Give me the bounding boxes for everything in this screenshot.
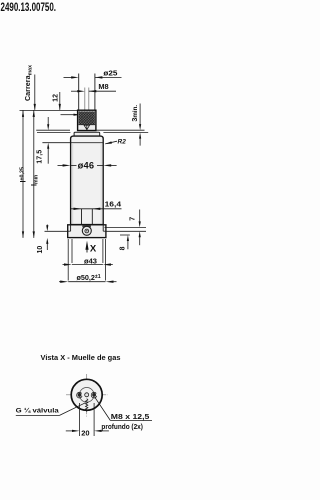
svg-text:X: X bbox=[90, 243, 97, 254]
dimension o25 bbox=[64, 68, 122, 78]
dimension 12 bbox=[53, 92, 61, 110]
label G 1/4 valvula bbox=[16, 403, 86, 416]
wire: stud extension line right bbox=[94, 74, 96, 111]
wire: extension line boss bottom to right bbox=[96, 129, 145, 131]
dimension l +-0,25 bbox=[19, 110, 28, 237]
centerline main view bbox=[86, 135, 88, 233]
piston rod boss (knurled, o25) bbox=[78, 110, 96, 130]
valve spring symbol bbox=[86, 399, 88, 412]
dimension Carrera max bbox=[23, 65, 36, 110]
dimension l min bbox=[29, 110, 39, 237]
dimension 3 min bbox=[130, 104, 141, 146]
wire: extension line flange edge left bbox=[67, 239, 69, 281]
wire: extension line pilot o43 left bbox=[71, 239, 73, 263]
bottom view centerline vertical bbox=[86, 374, 88, 417]
wire: valve bore wall left bbox=[81, 209, 83, 225]
svg-text:17,5: 17,5 bbox=[35, 150, 44, 164]
M8 hole left bbox=[77, 392, 82, 398]
svg-text:ø25: ø25 bbox=[103, 68, 117, 77]
svg-text:M8: M8 bbox=[98, 82, 108, 91]
wire: extension line flange edge right bbox=[105, 239, 107, 281]
svg-text:10: 10 bbox=[37, 246, 44, 254]
dimension 17,5 bbox=[35, 117, 71, 164]
svg-text:G ¼ válvula: G ¼ válvula bbox=[16, 407, 59, 415]
gas spring body o46 bbox=[71, 132, 104, 224]
svg-text:7: 7 bbox=[129, 217, 136, 221]
view arrow X bbox=[85, 241, 97, 255]
dimension o43 bbox=[63, 258, 113, 265]
wire: stud extension line left bbox=[78, 74, 80, 111]
bolt circle bbox=[79, 388, 94, 403]
dimension 7 bbox=[129, 210, 141, 246]
svg-text:ø46: ø46 bbox=[78, 161, 95, 171]
svg-text:12: 12 bbox=[53, 94, 60, 102]
wire: extension line body top to right bbox=[103, 132, 148, 134]
wire: M8 stud inner line right bbox=[88, 88, 90, 111]
dimension 16,4 valve bore bbox=[71, 201, 122, 210]
bottom flange o50,2 bbox=[68, 225, 106, 238]
dimension 8 bbox=[120, 235, 129, 250]
wire: M8 stud inner line left bbox=[84, 88, 86, 111]
svg-text:Vista X - Muelle de gas: Vista X - Muelle de gas bbox=[41, 353, 121, 362]
svg-text:profundo (2x): profundo (2x) bbox=[101, 424, 142, 431]
svg-text:ø43: ø43 bbox=[84, 258, 97, 265]
wire: extension line pilot o43 right bbox=[102, 239, 104, 263]
label R2 bbox=[105, 138, 126, 145]
wire: valve bore wall right bbox=[91, 209, 93, 225]
M8 hole right bbox=[91, 392, 96, 398]
svg-text:2490.13.00750.: 2490.13.00750. bbox=[1, 0, 57, 14]
leader to thread bbox=[61, 114, 81, 116]
label M8 x 12,5 profundo (2x) bbox=[95, 397, 152, 431]
wire: extension line at rod end face bbox=[20, 109, 79, 111]
dimension M8 bbox=[71, 82, 116, 92]
bottom view body circle bbox=[71, 379, 102, 410]
svg-text:3min.: 3min. bbox=[130, 105, 139, 122]
svg-text:R2: R2 bbox=[118, 138, 127, 145]
dimension 20 bbox=[66, 403, 109, 437]
wire: extension line valve seat right bbox=[120, 234, 130, 236]
dimension 10 bbox=[37, 225, 68, 254]
svg-text:M8 x 12,5: M8 x 12,5 bbox=[111, 414, 150, 421]
dimension o46 bbox=[58, 161, 117, 171]
dimension o50,2 +-1 bbox=[59, 273, 117, 283]
center valve stem circle bbox=[85, 393, 89, 397]
svg-text:8: 8 bbox=[120, 246, 127, 250]
bottom view centerline horizontal bbox=[66, 394, 108, 396]
svg-text:16,4: 16,4 bbox=[105, 201, 122, 208]
wire: extension line flange step upper right bbox=[105, 226, 147, 228]
wire: extension line flange step lower right bbox=[106, 230, 146, 232]
svg-text:20: 20 bbox=[81, 428, 89, 437]
